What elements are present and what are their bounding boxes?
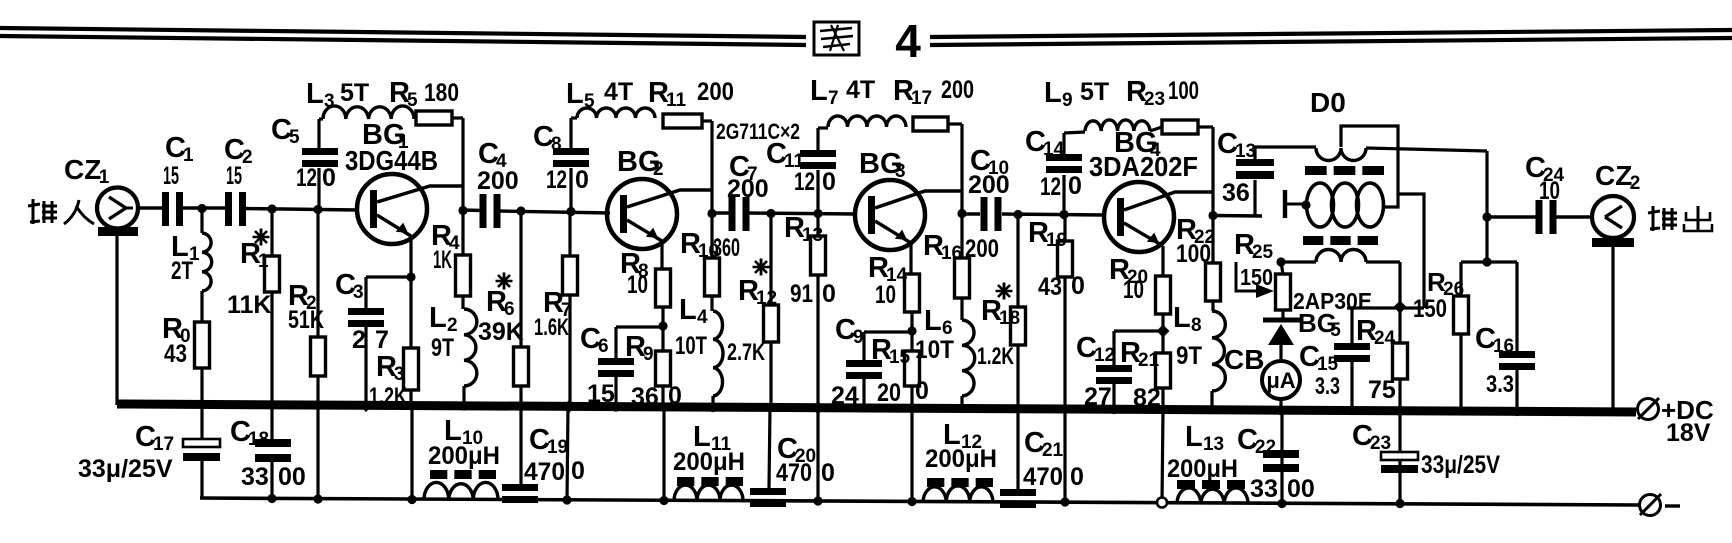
svg-text:9: 9 — [853, 327, 864, 348]
transformer D0 primary loop — [1341, 126, 1398, 207]
node bottom R7 — [562, 495, 571, 504]
title box glyph (figure char) — [814, 22, 859, 55]
capacitor C9 — [846, 360, 882, 379]
node D0 tertiary right (diamond) — [1394, 301, 1407, 314]
svg-text:13: 13 — [1235, 141, 1256, 162]
svg-text:0: 0 — [571, 457, 585, 485]
capacitor C12 — [1096, 365, 1132, 384]
svg-text:1.2K: 1.2K — [977, 343, 1014, 370]
transistor BG4 collector wire — [1124, 192, 1213, 210]
node BG2 emitter junction — [658, 321, 667, 330]
connector CZ2 label — [1595, 160, 1640, 194]
resistor R18 — [1011, 307, 1026, 345]
capacitor C8 label — [533, 121, 562, 155]
wire R23 to BG4 collector node — [1150, 127, 1213, 215]
resistor R3 wire — [409, 277, 412, 406]
resistor R23 — [1162, 120, 1198, 134]
capacitor C4 — [480, 194, 501, 228]
capacitor C24 — [1536, 200, 1557, 234]
svg-text:10: 10 — [1123, 276, 1144, 304]
svg-text:10: 10 — [1539, 177, 1560, 205]
capacitor C21 label — [1024, 427, 1064, 461]
wire L6 to bus — [960, 396, 963, 409]
capacitor C14 branch wire — [1062, 133, 1065, 215]
svg-text:23: 23 — [1370, 433, 1391, 454]
svg-text:36: 36 — [631, 383, 659, 411]
terminal negative — [1640, 494, 1681, 516]
node bus L6 — [957, 404, 966, 413]
inductor L6 label — [915, 305, 954, 364]
resistor R6 value 39K — [478, 318, 524, 346]
capacitor C16 value 3.3 — [1486, 371, 1514, 398]
resistor R14 — [905, 274, 920, 312]
node bus R2 — [313, 400, 322, 409]
transformer D0 label — [1310, 87, 1346, 118]
resistor R20 label — [1109, 254, 1148, 304]
wire rectifier rail — [1347, 306, 1424, 309]
capacitor C16 label — [1475, 323, 1514, 357]
wire bus to bottom under R7 — [567, 407, 568, 501]
svg-text:CZ: CZ — [64, 154, 101, 185]
title numeral 4 — [895, 15, 921, 67]
inductor L8 label — [1173, 302, 1202, 370]
inductor L4 — [713, 311, 723, 396]
capacitor C7 value 200 — [727, 175, 769, 203]
resistor R19 — [1058, 241, 1073, 277]
svg-text:2: 2 — [653, 159, 664, 180]
capacitor C3 — [348, 308, 384, 327]
node bottom C23 — [1395, 499, 1404, 508]
capacitor C9 label — [835, 314, 864, 348]
svg-text:1K: 1K — [433, 246, 452, 274]
resistor R15 wire — [910, 331, 913, 409]
svg-text:10: 10 — [875, 281, 896, 309]
svg-text:91: 91 — [790, 280, 813, 308]
wire top rule left segment — [0, 28, 806, 45]
transistor BG1 emitter wire — [377, 215, 411, 277]
svg-text:470: 470 — [1023, 463, 1063, 491]
inductor L6 — [962, 320, 975, 396]
resistor R25 wire — [1281, 262, 1283, 318]
wire R26/C16 loop top — [1461, 260, 1517, 263]
node output top — [1482, 212, 1491, 221]
capacitor C10 label — [970, 145, 1009, 179]
connector CZ1 (input jack) — [97, 188, 138, 229]
capacitor C3 label — [335, 269, 364, 303]
inductor L3 — [319, 106, 414, 119]
svg-text:200: 200 — [941, 76, 974, 104]
node C10-R18 junction — [1013, 210, 1022, 219]
svg-text:16: 16 — [1493, 336, 1514, 357]
transistor BG2 emitter wire — [627, 220, 662, 269]
capacitor C17 wire — [200, 406, 203, 499]
inductor L8 — [1212, 311, 1225, 391]
capacitor C13 value 36 — [1222, 179, 1250, 207]
inductor L4 label — [675, 294, 708, 360]
node bottom R2 column — [313, 494, 322, 503]
capacitor C19 — [502, 484, 538, 503]
resistor R25 value 150 — [1240, 264, 1273, 290]
resistor R9 wire — [661, 326, 664, 408]
resistor R13 label — [784, 212, 823, 246]
capacitor C20 label — [777, 433, 816, 467]
capacitor C15 label — [1299, 341, 1339, 375]
node bus meter — [1276, 406, 1285, 415]
resistor R6 — [514, 347, 529, 386]
capacitor C1 label — [165, 132, 194, 166]
node bottom C18 — [267, 494, 276, 503]
capacitor C6 branch wire — [616, 327, 663, 408]
svg-text:15: 15 — [163, 162, 179, 190]
choke L10 label — [428, 415, 500, 470]
wire main line BG3 collector node to C10 — [962, 212, 980, 215]
capacitor C17 value 33u/25V — [78, 455, 173, 483]
svg-text:51K: 51K — [288, 306, 324, 334]
svg-text:18: 18 — [999, 308, 1020, 329]
resistor R4 wire — [461, 210, 464, 309]
transformer D0 secondary to rectifier rail wire — [1398, 194, 1424, 308]
resistor R12 label — [738, 259, 777, 310]
wire R14 to emitter node — [910, 312, 913, 331]
resistor R21 value 82 — [1133, 384, 1161, 412]
diode BG5 label — [1298, 308, 1341, 341]
svg-text:L: L — [1185, 421, 1203, 453]
resistor R4 — [456, 255, 471, 296]
transistor BG2 collector wire — [627, 190, 712, 207]
wire main line BG4 collector node to C13 branch — [1213, 214, 1262, 218]
node C7-R12 junction — [766, 209, 775, 218]
resistor R9 value 360 — [631, 382, 682, 411]
resistor R5 — [416, 111, 452, 125]
svg-text:2: 2 — [1630, 173, 1641, 194]
capacitor C6 label — [580, 323, 609, 357]
svg-text:15: 15 — [1317, 354, 1339, 375]
wire output node to C24 — [1487, 215, 1537, 218]
wire bus to bottom under R13 — [816, 408, 819, 502]
svg-text:200: 200 — [697, 78, 734, 106]
svg-text:21: 21 — [1138, 350, 1160, 371]
capacitor C22 — [1263, 450, 1299, 472]
capacitor C19 value 4700 — [524, 457, 585, 486]
capacitor C10 — [981, 197, 1002, 231]
resistor R9 — [656, 351, 671, 386]
resistor R12 value 2.7K — [727, 339, 765, 366]
wire L4 to bus — [711, 396, 714, 408]
resistor R17 label — [893, 75, 974, 109]
transistor BG1 — [357, 174, 427, 244]
resistor R22 — [1206, 263, 1221, 301]
capacitor C6 — [598, 358, 634, 377]
resistor R24 wire — [1398, 308, 1401, 411]
resistor R13 value 910 — [790, 280, 836, 308]
node bus C15 — [1347, 406, 1356, 415]
capacitor C9 value 24 — [831, 382, 859, 410]
node bottom R15 — [907, 497, 916, 506]
inductor L9 — [1064, 120, 1150, 133]
resistor R23 label — [1126, 76, 1199, 110]
resistor R20 — [1156, 276, 1171, 314]
capacitor C15 — [1334, 343, 1370, 362]
node C8 main line — [566, 207, 575, 216]
capacitor C18 value 3300 — [241, 463, 306, 491]
resistor R26 wire — [1459, 262, 1462, 412]
svg-text:18: 18 — [248, 429, 269, 450]
inductor L5 label — [566, 78, 633, 112]
svg-text:150: 150 — [1413, 295, 1447, 323]
diode BG5 type 2AP30E — [1293, 288, 1372, 314]
svg-text:7: 7 — [375, 326, 389, 354]
capacitor C24 label — [1525, 152, 1565, 186]
resistor R14 label — [868, 252, 908, 309]
resistor R2 — [311, 337, 326, 376]
svg-text:3: 3 — [394, 364, 405, 385]
wire main line C2 to BG1 base — [244, 209, 358, 211]
capacitor C20 — [750, 488, 786, 507]
node BG4 collector — [1208, 211, 1217, 220]
svg-text:L: L — [306, 78, 324, 110]
resistor R25 label — [1234, 229, 1274, 263]
transistor BG4 label — [1089, 127, 1198, 182]
wire main line C1 to C2 — [181, 206, 227, 209]
capacitor C17 label — [135, 421, 174, 455]
inductor L7 label — [810, 75, 875, 109]
transistor type label 2G711Cx2 — [716, 119, 800, 144]
svg-text:9: 9 — [1062, 90, 1073, 111]
wire bus to bottom under R24 — [1398, 411, 1401, 504]
resistor R13 — [811, 236, 826, 275]
svg-text:33: 33 — [241, 463, 269, 491]
capacitor C11 value 120 — [794, 168, 836, 196]
svg-text:16: 16 — [941, 243, 962, 264]
inductor L7 — [818, 116, 906, 128]
resistor R26 label — [1427, 267, 1464, 300]
svg-text:12: 12 — [546, 166, 567, 194]
capacitor C8 — [553, 148, 589, 167]
node bus R24 — [1395, 406, 1404, 415]
resistor R26 — [1454, 296, 1469, 334]
resistor R7 — [563, 256, 578, 295]
resistor R24 label — [1356, 315, 1396, 349]
svg-text:17: 17 — [911, 88, 932, 109]
transformer D0 secondary winding middle — [1307, 183, 1384, 227]
wire main line BG1 collector node to C4 — [463, 208, 481, 212]
svg-text:3DG44B: 3DG44B — [345, 145, 438, 176]
svg-text:82: 82 — [1133, 384, 1161, 412]
inductor L9 label — [1044, 77, 1109, 111]
svg-text:11: 11 — [666, 90, 687, 111]
node C14 main line — [1059, 210, 1068, 219]
svg-text:17: 17 — [153, 434, 174, 455]
node bus C9 — [859, 403, 868, 412]
node BG2 collector — [707, 209, 716, 218]
svg-text:9T: 9T — [431, 334, 454, 362]
resistor R0 label — [162, 313, 191, 368]
svg-text:200: 200 — [965, 235, 999, 263]
svg-text:75: 75 — [1368, 376, 1396, 404]
svg-text:5: 5 — [1330, 320, 1341, 341]
resistor R21 wire — [1161, 331, 1164, 410]
svg-text:1: 1 — [258, 251, 269, 272]
svg-text:2: 2 — [352, 326, 366, 354]
capacitor C23 value 33u/25V — [1421, 451, 1500, 479]
resistor R18 label — [981, 283, 1020, 330]
wire R8 to emitter node — [661, 307, 664, 326]
resistor R12 — [764, 305, 779, 342]
svg-text:00: 00 — [1287, 475, 1315, 503]
resistor R5 label — [389, 77, 459, 111]
capacitor C4 value 200 — [477, 167, 519, 195]
svg-text:L: L — [1044, 77, 1062, 109]
connector CZ2 shell bar — [1592, 238, 1634, 247]
resistor R19 label — [1028, 217, 1067, 251]
svg-text:5: 5 — [584, 91, 595, 112]
node bus R6 — [516, 402, 525, 411]
resistor R10 label — [680, 228, 740, 262]
svg-text:3: 3 — [895, 161, 906, 182]
wire main line C4 to BG2 base — [499, 211, 610, 213]
svg-text:470: 470 — [524, 458, 565, 486]
wire meter to bus — [1279, 399, 1282, 411]
transistor BG4 — [1104, 182, 1174, 252]
resistor R10 — [705, 258, 720, 296]
transformer D0 core bottom — [1303, 236, 1378, 245]
capacitor C21 value 4700 — [1023, 463, 1084, 491]
svg-text:6: 6 — [504, 299, 515, 320]
capacitor C13 branch wire — [1253, 147, 1256, 216]
svg-text:L: L — [566, 78, 584, 110]
svg-text:11K: 11K — [227, 291, 271, 319]
capacitor C20 value 4700 — [776, 459, 835, 487]
node bus R0 — [197, 400, 206, 409]
node bus L4 — [708, 403, 717, 412]
svg-text:12: 12 — [794, 168, 815, 196]
resistor R1 branch wire — [270, 209, 273, 406]
svg-text:15: 15 — [587, 380, 615, 408]
capacitor C13 — [1236, 159, 1274, 179]
node D0 tertiary left — [1276, 257, 1285, 266]
resistor R8 label — [620, 248, 649, 299]
transistor BG3 emitter wire — [875, 221, 911, 274]
svg-text:20: 20 — [877, 379, 901, 407]
wire CZ2 shell to bus — [1611, 247, 1614, 412]
svg-text:0: 0 — [822, 280, 836, 308]
svg-text:L: L — [810, 75, 828, 107]
svg-text:23: 23 — [1144, 89, 1165, 110]
resistor R26 value 150 — [1413, 295, 1447, 323]
capacitor C16 wire — [1515, 262, 1518, 412]
svg-text:12: 12 — [1094, 345, 1115, 366]
capacitor C15 wire — [1350, 308, 1353, 411]
svg-text:43: 43 — [1038, 273, 1062, 301]
choke L12 — [923, 478, 993, 502]
svg-text:0: 0 — [322, 164, 336, 192]
svg-text:200μH: 200μH — [673, 448, 745, 476]
svg-text:CZ: CZ — [1595, 160, 1632, 191]
svg-text:10: 10 — [627, 271, 648, 299]
svg-text:25: 25 — [1252, 242, 1274, 263]
capacitor C4 label — [478, 138, 507, 172]
resistor R15 label — [871, 334, 911, 368]
svg-text:8: 8 — [1191, 315, 1202, 336]
svg-text:470: 470 — [776, 459, 812, 487]
svg-text:1.6K: 1.6K — [534, 314, 569, 341]
resistor R0 — [195, 322, 210, 368]
resistor R19 branch wire — [1063, 215, 1066, 409]
svg-text:150: 150 — [1240, 264, 1273, 290]
svg-text:27: 27 — [1084, 383, 1112, 411]
node BG4 emitter junction — [1157, 325, 1170, 338]
capacitor C23 label — [1352, 420, 1391, 454]
capacitor C22 label — [1237, 424, 1276, 458]
svg-text:5T: 5T — [1080, 78, 1109, 106]
resistor R7 label — [534, 287, 572, 341]
svg-text:0: 0 — [575, 166, 589, 194]
svg-text:3DA202F: 3DA202F — [1089, 151, 1198, 182]
svg-text:12: 12 — [1040, 173, 1061, 201]
capacitor C19 label — [529, 424, 568, 458]
transistor BG2 — [607, 179, 677, 249]
svg-text:2.7K: 2.7K — [727, 339, 765, 366]
capacitor C8 branch wire — [569, 118, 572, 212]
node bus R26 — [1456, 406, 1465, 415]
capacitor C19 wire — [519, 407, 522, 484]
svg-text:0: 0 — [915, 377, 929, 405]
node bottom R21 — [1157, 498, 1167, 508]
svg-text:0: 0 — [668, 382, 682, 410]
wire main line C7 to BG3 base — [748, 213, 856, 214]
svg-text:μA: μA — [1266, 368, 1295, 393]
node bottom R19 — [1060, 497, 1069, 506]
wire bus to bottom at R2 column — [316, 406, 319, 499]
svg-text:22: 22 — [1255, 437, 1276, 458]
resistor R11 — [663, 114, 702, 128]
transistor BG3 collector wire — [875, 191, 962, 208]
resistor R25 — [1276, 274, 1291, 310]
terminal +DC 18V — [1638, 395, 1714, 447]
capacitor C11 branch wire — [816, 128, 819, 214]
svg-text:2T: 2T — [171, 257, 193, 285]
meter uA — [1262, 361, 1300, 399]
svg-text:5: 5 — [289, 127, 300, 148]
svg-text:4T: 4T — [846, 76, 875, 104]
diode BG5 (2AP30E) — [1263, 320, 1300, 361]
transistor BG1 label — [345, 119, 438, 176]
resistor R4 label — [431, 220, 460, 274]
resistor R15 value 200 — [877, 377, 929, 407]
resistor R1 value 11K — [227, 291, 271, 319]
svg-text:180: 180 — [424, 79, 459, 107]
svg-text:0: 0 — [821, 459, 835, 487]
svg-text:L: L — [924, 305, 942, 337]
connector CZ1 label — [64, 154, 110, 188]
svg-text:10T: 10T — [675, 332, 707, 360]
svg-text:L: L — [429, 302, 447, 334]
connector CZ2 (output jack) — [1592, 196, 1634, 238]
transistor BG2 label — [617, 146, 664, 180]
svg-text:5: 5 — [407, 90, 418, 111]
svg-text:33: 33 — [1250, 475, 1278, 503]
svg-text:13: 13 — [1203, 434, 1224, 455]
resistor R7 branch wire — [568, 212, 571, 407]
capacitor C8 value 120 — [546, 166, 589, 194]
node output lower — [1482, 257, 1491, 266]
node bus L2 — [459, 401, 468, 410]
resistor R18 branch wire — [1016, 215, 1019, 409]
wire main line C10 to BG4 base — [1002, 214, 1105, 215]
wire C24 to CZ2 — [1555, 215, 1592, 218]
svg-text:3: 3 — [353, 282, 364, 303]
resistor R12 branch wire — [769, 214, 772, 408]
